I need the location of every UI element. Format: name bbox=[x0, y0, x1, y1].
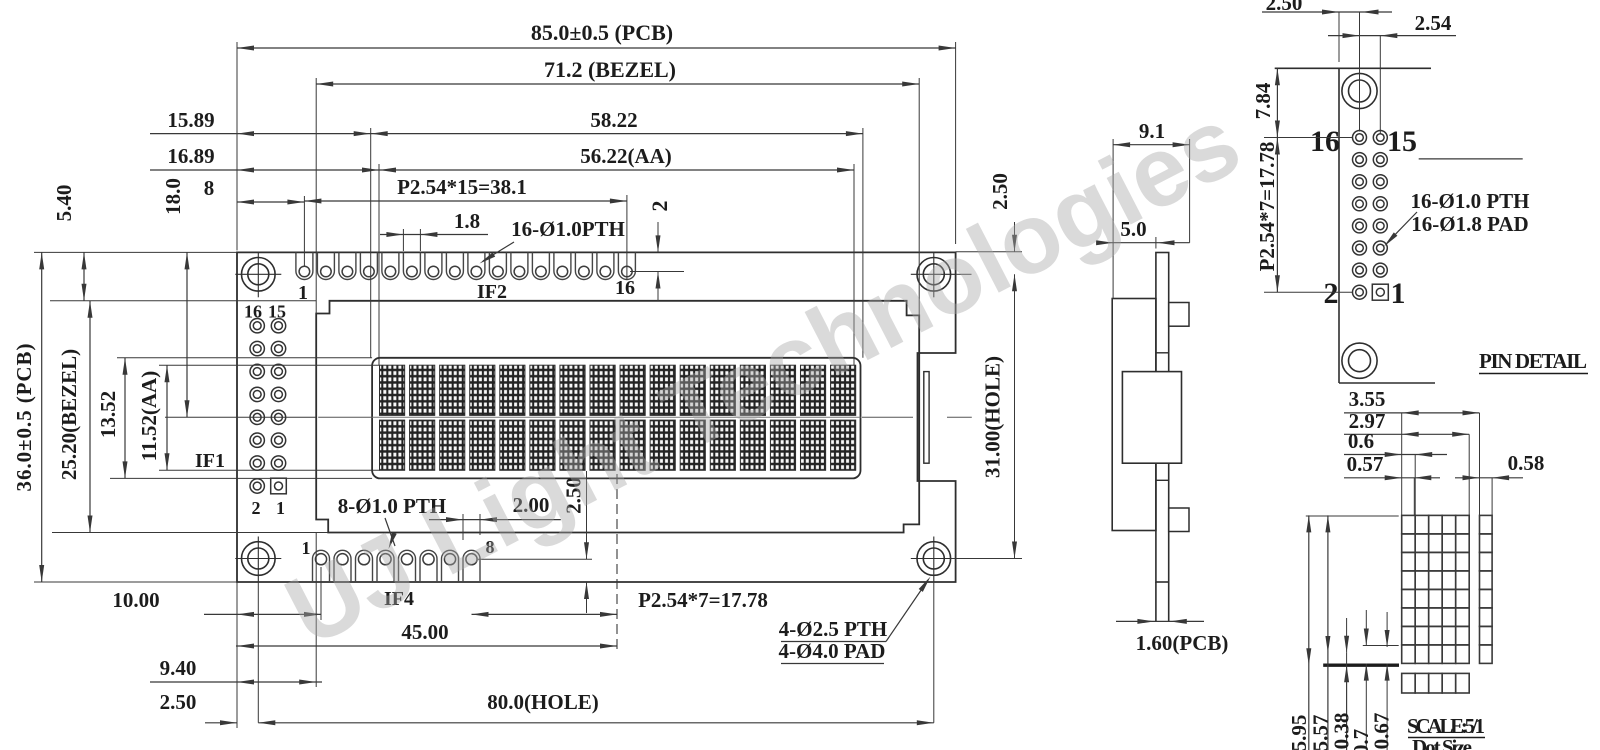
svg-text:P2.54*7=17.78: P2.54*7=17.78 bbox=[1255, 142, 1279, 272]
dim 56.22 AA bbox=[379, 169, 854, 171]
extra row below bbox=[1402, 673, 1416, 693]
centerline stub right of window bbox=[862, 416, 913, 418]
svg-text:5.40: 5.40 bbox=[52, 185, 76, 222]
pin detail: centerlines bbox=[1359, 12, 1361, 132]
dim 58.22 bbox=[371, 133, 863, 135]
svg-text:16-Ø1.0 PTH: 16-Ø1.0 PTH bbox=[1411, 189, 1530, 213]
IF2 pad 3 bbox=[339, 252, 356, 279]
dim 2.97 bbox=[1344, 433, 1469, 435]
ext side back bbox=[1189, 139, 1191, 243]
side view: pins below PCB bbox=[1155, 582, 1157, 621]
ext pcb edge up bbox=[1338, 12, 1340, 62]
extra column (0.58) bbox=[1480, 515, 1493, 534]
ext bezel bottom left bbox=[52, 532, 328, 534]
svg-text:15.89: 15.89 bbox=[167, 108, 214, 132]
IF2 pad 5 bbox=[382, 252, 399, 279]
dim 31.00 HOLE vertical bbox=[1014, 274, 1016, 558]
svg-text:IF1: IF1 bbox=[195, 450, 225, 472]
dim 80.0 HOLE bbox=[258, 722, 934, 724]
IF1 pad 13 bbox=[271, 341, 285, 355]
ext grid top left bbox=[1306, 515, 1399, 517]
ext AA centerline left bbox=[165, 416, 316, 418]
ext PCB left top bbox=[236, 42, 238, 250]
IF2 pad 13 bbox=[554, 252, 571, 279]
TR hole centerline extension to 2.50 dim bbox=[957, 273, 972, 275]
svg-text:9.40: 9.40 bbox=[160, 656, 197, 680]
pin detail pad 16 bbox=[1353, 131, 1367, 145]
IF2 pad 14 bbox=[575, 252, 592, 279]
dim P2.54*7=17.78 bbox=[472, 613, 618, 615]
svg-text:PIN DETAIL: PIN DETAIL bbox=[1479, 349, 1587, 373]
IF4 pad 6 bbox=[420, 550, 437, 582]
IF2 pad 15 bbox=[597, 252, 614, 279]
mounting hole TR (2.5 PTH / 4.0 PAD) bbox=[917, 258, 951, 292]
svg-text:7.84: 7.84 bbox=[1251, 82, 1275, 119]
svg-text:15: 15 bbox=[268, 302, 286, 322]
IF2 pad 4 bbox=[360, 252, 377, 279]
svg-text:15: 15 bbox=[1387, 125, 1417, 158]
ext pin16 row right bbox=[630, 271, 684, 273]
IF4 pad 3 bbox=[356, 550, 373, 582]
svg-text:80.0(HOLE): 80.0(HOLE) bbox=[487, 690, 598, 714]
svg-text:IF2: IF2 bbox=[477, 281, 507, 303]
svg-text:25.20(BEZEL): 25.20(BEZEL) bbox=[57, 349, 81, 480]
dim 71.2 BEZEL bbox=[316, 83, 919, 85]
ext AA left bbox=[378, 164, 380, 365]
pin detail: mounting hole bottom bbox=[1342, 343, 1377, 378]
svg-text:5.95: 5.95 bbox=[1287, 715, 1311, 750]
svg-text:2.54: 2.54 bbox=[1415, 11, 1452, 35]
ext PCB left down bbox=[236, 582, 238, 728]
pin detail pad 9 bbox=[1373, 197, 1387, 211]
dim 9.40 bbox=[150, 681, 322, 683]
svg-text:18.0: 18.0 bbox=[161, 178, 185, 215]
dim 11.52 AA vertical bbox=[166, 365, 168, 470]
pin detail pad 3 bbox=[1373, 263, 1387, 277]
dim 15.89 bbox=[150, 133, 371, 135]
IF1 pad 5 bbox=[271, 433, 285, 447]
IF2 pad 2 bbox=[317, 252, 334, 279]
ext 58.22 right bbox=[862, 128, 864, 358]
pin detail pad 15 bbox=[1373, 131, 1387, 145]
IF2 pad 8 bbox=[446, 252, 463, 279]
svg-text:11.52(AA): 11.52(AA) bbox=[137, 371, 161, 461]
svg-text:16: 16 bbox=[244, 302, 262, 322]
IF1 pad 16 bbox=[250, 319, 264, 333]
dim 2.50 IF4 to PCB bottom bbox=[586, 471, 588, 559]
ext row2 bbox=[1264, 291, 1352, 293]
svg-text:0.6: 0.6 bbox=[1348, 429, 1374, 453]
IF4 pad 5 bbox=[399, 550, 416, 582]
dim 10.00 bbox=[204, 613, 321, 615]
IF2 pad 12 bbox=[532, 252, 549, 279]
pin detail pad 11 bbox=[1373, 175, 1387, 189]
svg-text:2: 2 bbox=[252, 498, 261, 518]
ext PCB top right bbox=[956, 251, 1022, 253]
dim 18.0 vertical bbox=[186, 252, 188, 417]
dim 2.00 pad width bbox=[429, 519, 561, 521]
centerline stub right of notch bbox=[947, 416, 972, 418]
svg-text:16: 16 bbox=[1310, 125, 1340, 158]
IF2 pad 1 bbox=[296, 252, 313, 279]
IF1 pad 6 bbox=[250, 433, 264, 447]
IF1 pad 8 bbox=[250, 410, 264, 424]
thick baseline (5.95) bbox=[1323, 664, 1399, 667]
svg-text:85.0±0.5 (PCB): 85.0±0.5 (PCB) bbox=[531, 20, 673, 45]
dim 85.0 PCB bbox=[237, 47, 956, 49]
dashed reference line at 45mm bbox=[616, 474, 618, 651]
IF4 pad 7 bbox=[442, 550, 459, 582]
pin detail pad 4 bbox=[1353, 263, 1367, 277]
dim 16.89 bbox=[150, 169, 379, 171]
svg-text:16-Ø1.0PTH: 16-Ø1.0PTH bbox=[511, 217, 625, 241]
svg-text:10.00: 10.00 bbox=[112, 588, 159, 612]
pin detail pad 6 bbox=[1353, 241, 1367, 255]
IF1 pad 15 bbox=[271, 319, 285, 333]
arrow 2.50 outside-left bbox=[220, 720, 237, 725]
svg-text:2.50: 2.50 bbox=[1266, 0, 1303, 15]
svg-text:8: 8 bbox=[204, 176, 215, 200]
IF1 pad 3 bbox=[271, 456, 285, 470]
ext AA bottom bbox=[159, 469, 380, 471]
ext side front bbox=[1112, 139, 1114, 299]
IF2 pad 7 bbox=[425, 252, 442, 279]
ext bezel top left bbox=[50, 300, 316, 302]
mounting hole BR (2.5 PTH / 4.0 PAD) bbox=[917, 542, 951, 576]
IF4 pad 8 bbox=[463, 550, 480, 582]
svg-text:1: 1 bbox=[276, 498, 285, 518]
svg-text:4-Ø2.5 PTH: 4-Ø2.5 PTH bbox=[779, 617, 888, 641]
dim 8 bbox=[237, 201, 304, 203]
svg-text:4-Ø4.0 PAD: 4-Ø4.0 PAD bbox=[779, 639, 886, 663]
dim 0.58 bbox=[1455, 477, 1523, 479]
IF4 pad 2 bbox=[334, 550, 351, 582]
svg-text:1: 1 bbox=[1391, 277, 1406, 310]
dim 45.00 bbox=[236, 645, 617, 647]
side view: rear tab bottom bbox=[1169, 508, 1189, 532]
reference line right of pins bbox=[1419, 158, 1523, 160]
IF1 pad 11 bbox=[271, 364, 285, 378]
mounting hole BL (2.5 PTH / 4.0 PAD) bbox=[241, 542, 275, 576]
PCB board outline (front view, 85.0 x 36.0) bbox=[237, 252, 956, 582]
ext window bottom bbox=[110, 477, 372, 479]
IF2 pad 6 bbox=[403, 252, 420, 279]
IF1 pad 14 bbox=[250, 341, 264, 355]
svg-text:56.22(AA): 56.22(AA) bbox=[580, 144, 672, 168]
svg-text:16: 16 bbox=[615, 277, 635, 299]
svg-text:2: 2 bbox=[1324, 277, 1339, 310]
dim 36.0 PCB vertical bbox=[41, 252, 43, 582]
ext PCB right top bbox=[955, 42, 957, 244]
arrow 1.8 left bbox=[386, 232, 403, 237]
svg-text:0.58: 0.58 bbox=[1508, 451, 1545, 475]
pin detail pad 1 (square) bbox=[1372, 284, 1388, 300]
IF4 pad 1 bbox=[313, 550, 330, 582]
dim P2.54*7=17.78 vertical bbox=[1276, 138, 1278, 293]
micro dims 0.38 / 0.7 / 0.67 bbox=[1346, 618, 1348, 653]
pin detail pad 12 bbox=[1353, 175, 1367, 189]
IF1 pad 10 bbox=[250, 387, 264, 401]
svg-text:0.57: 0.57 bbox=[1347, 452, 1384, 476]
arrow 1.8 right bbox=[420, 232, 437, 237]
svg-text:3.55: 3.55 bbox=[1349, 387, 1386, 411]
IF2 pad 11 bbox=[511, 252, 528, 279]
ext row16 bbox=[1264, 137, 1352, 139]
svg-text:2.50: 2.50 bbox=[160, 690, 197, 714]
pin detail pad 2 bbox=[1353, 285, 1367, 299]
dim 0.57 bbox=[1344, 477, 1440, 479]
ext IF4 pin1 bbox=[320, 567, 322, 620]
ext bezel right bbox=[918, 78, 920, 315]
svg-text:1.8: 1.8 bbox=[454, 209, 480, 233]
svg-text:Dot Size: Dot Size bbox=[1412, 735, 1472, 750]
bezel outline with corner tabs bbox=[316, 301, 919, 533]
ext PCB top left bbox=[34, 251, 237, 253]
dot-matrix character cells 16x2 bbox=[380, 365, 405, 415]
BL hole centerline extension down to 80.0 dim bbox=[257, 582, 259, 723]
dim 13.52 vertical bbox=[124, 358, 126, 479]
dot size detail grid 5x8 bbox=[1402, 515, 1416, 534]
pin detail: PCB edge strip bbox=[1275, 67, 1431, 69]
ext PCB bottom left bbox=[34, 581, 237, 583]
dim 25.20 BEZEL vertical bbox=[89, 301, 91, 533]
svg-text:58.22: 58.22 bbox=[590, 108, 637, 132]
dim 9.1 bbox=[1113, 144, 1190, 146]
dim 3.55 bbox=[1344, 412, 1480, 414]
svg-text:36.0±0.5 (PCB): 36.0±0.5 (PCB) bbox=[12, 344, 36, 492]
svg-text:1.60(PCB): 1.60(PCB) bbox=[1136, 631, 1229, 655]
svg-text:71.2 (BEZEL): 71.2 (BEZEL) bbox=[544, 57, 676, 82]
IF1 pad 12 bbox=[250, 364, 264, 378]
svg-text:2: 2 bbox=[647, 201, 672, 212]
pin detail pad 10 bbox=[1353, 197, 1367, 211]
dim 2.50 pin detail bbox=[1262, 11, 1392, 13]
side view: backlight block bbox=[1122, 372, 1181, 464]
ext IF2 pin1 bbox=[303, 196, 305, 266]
AA horizontal centerline bbox=[372, 416, 860, 418]
pin detail: mounting hole top bbox=[1342, 73, 1377, 108]
pin detail pad 7 bbox=[1373, 219, 1387, 233]
IF1 pad 7 bbox=[271, 410, 285, 424]
svg-text:0.67: 0.67 bbox=[1370, 713, 1394, 750]
side view: PCB strip bbox=[1156, 253, 1169, 583]
dim 1.8 pad width bbox=[380, 234, 488, 236]
ext bezel left bbox=[315, 78, 317, 314]
IF4 pad 4 bbox=[377, 550, 394, 582]
pin detail pad 5 bbox=[1373, 241, 1387, 255]
dim 7.84 bbox=[1276, 68, 1278, 137]
display window opening bbox=[372, 358, 860, 479]
ext window top bbox=[117, 357, 372, 359]
IF1 pad 1 (square) bbox=[271, 478, 287, 494]
dim 2.54 pin detail bbox=[1328, 35, 1456, 37]
svg-text:45.00: 45.00 bbox=[401, 620, 448, 644]
svg-text:P2.54*15=38.1: P2.54*15=38.1 bbox=[397, 175, 527, 199]
IF2 pad 9 bbox=[468, 252, 485, 279]
IF2 pad 16 bbox=[618, 252, 635, 279]
dim 5.0 bbox=[1097, 242, 1190, 244]
side tick lower bbox=[1156, 479, 1169, 481]
dim 0.6 bbox=[1344, 454, 1447, 456]
pin detail pad 13 bbox=[1373, 153, 1387, 167]
dim 1.60 PCB bbox=[1116, 620, 1204, 622]
mounting hole TL (2.5 PTH / 4.0 PAD) bbox=[241, 258, 275, 292]
dim 2.50 bottom left bbox=[205, 722, 237, 724]
side tick upper bbox=[1156, 352, 1169, 354]
IF1 pad 2 bbox=[250, 479, 264, 493]
pin detail pad 14 bbox=[1353, 153, 1367, 167]
ext bezel left down bbox=[315, 533, 317, 688]
svg-text:16.89: 16.89 bbox=[167, 144, 214, 168]
pin detail pad 8 bbox=[1353, 219, 1367, 233]
IF1 pad 4 bbox=[250, 456, 264, 470]
tick PCB front face bbox=[1155, 237, 1157, 249]
ext AA right bbox=[853, 164, 855, 365]
side view: rear tab top bbox=[1169, 303, 1189, 327]
IF1 pad 9 bbox=[271, 387, 285, 401]
svg-text:13.52: 13.52 bbox=[96, 391, 120, 438]
svg-text:P2.54*7=17.78: P2.54*7=17.78 bbox=[638, 588, 768, 612]
svg-text:31.00(HOLE): 31.00(HOLE) bbox=[981, 356, 1005, 478]
ext 58.22 left bbox=[370, 128, 372, 358]
ext IF2 pin16 bbox=[626, 195, 628, 280]
IF2 pad 10 bbox=[489, 252, 506, 279]
centerline stub left bbox=[318, 416, 372, 418]
dim 5.40 vertical bbox=[83, 252, 85, 300]
dim P2.54*15=38.1 bbox=[304, 200, 627, 202]
side view: bezel frame bbox=[1112, 299, 1156, 531]
svg-text:16-Ø1.8 PAD: 16-Ø1.8 PAD bbox=[1411, 212, 1528, 236]
tick 0.7 bbox=[1363, 645, 1399, 647]
LCD zebra connector bar in right notch bbox=[924, 372, 929, 464]
ext IF4 pin8 row bbox=[478, 558, 592, 560]
BR hole centerline extension down bbox=[933, 582, 935, 723]
ext AA top bbox=[159, 364, 380, 366]
ext BR hole right bbox=[950, 558, 1022, 560]
